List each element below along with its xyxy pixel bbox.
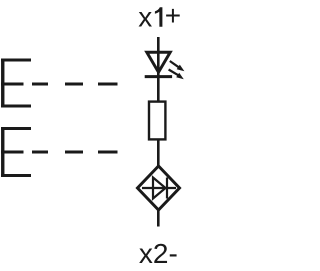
wire resistor to diode bridge [157, 140, 160, 166]
svg-text:x: x [138, 2, 152, 33]
diode inside diamond [142, 178, 176, 199]
connector E2 (bottom) [1, 127, 31, 177]
bridge rectifier diamond [138, 166, 180, 210]
resistor R1 [149, 102, 165, 140]
connector E1 (top) [1, 59, 31, 108]
wire diamond to x2- [157, 210, 160, 227]
svg-text:+: + [165, 0, 181, 31]
LED light arrows [169, 61, 185, 79]
dashed link line (top) [32, 83, 118, 86]
LED D1 [145, 52, 172, 76]
node x1+ label [138, 0, 181, 33]
svg-text:x2-: x2- [139, 238, 178, 269]
wire x1+ to resistor [157, 37, 160, 101]
dashed link line (bottom) [32, 151, 118, 154]
